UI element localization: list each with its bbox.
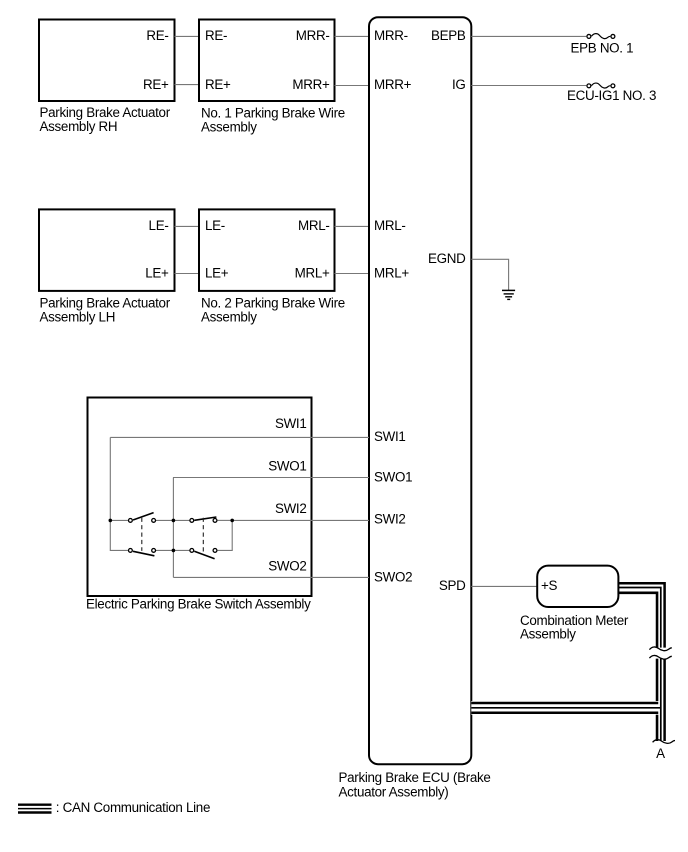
wire MRL- to ECU	[335, 225, 370, 227]
box Parking Brake ECU (Brake Actuator Assembly) U1	[339, 17, 491, 799]
svg-text:LE-: LE-	[205, 218, 225, 233]
svg-text:SWO1: SWO1	[268, 459, 306, 474]
svg-text:Assembly: Assembly	[520, 627, 576, 642]
svg-text:: CAN Communication Line: : CAN Communication Line	[56, 800, 210, 815]
box Parking Brake Actuator Assembly LH	[39, 209, 175, 324]
svg-text:SPD: SPD	[439, 578, 466, 593]
box No. 2 Parking Brake Wire Assembly	[199, 209, 345, 324]
svg-text:Parking Brake Actuator: Parking Brake Actuator	[40, 296, 171, 311]
svg-text:Actuator Assembly): Actuator Assembly)	[339, 784, 449, 799]
wire BEPB from ECU to fuse EPB NO. 1	[471, 35, 586, 37]
svg-text:SWI2: SWI2	[374, 511, 406, 526]
wire LE- between actuator LH and wire assembly no.2	[175, 225, 200, 227]
svg-text:LE-: LE-	[149, 218, 169, 233]
switch SW2 upper contacts	[190, 517, 217, 522]
svg-text:MRL-: MRL-	[298, 218, 330, 233]
wire RE+ between actuator RH and wire assembly no.1	[175, 84, 200, 86]
svg-text:LE+: LE+	[205, 265, 229, 280]
box No. 1 Parking Brake Wire Assembly	[199, 20, 345, 135]
switch SW1 mechanical link (dashed)	[141, 518, 143, 551]
wire EGND	[471, 259, 508, 290]
box Parking Brake Actuator Assembly RH	[39, 20, 175, 134]
fuse ECU-IG1 NO. 3	[567, 83, 656, 103]
svg-text:No. 1 Parking Brake Wire: No. 1 Parking Brake Wire	[201, 106, 345, 121]
wire upper contact row segments	[110, 519, 232, 521]
svg-text:Assembly: Assembly	[201, 310, 257, 325]
CAN bus from ECU: horizontal triple line joining vertical bus	[471, 701, 661, 715]
svg-text:MRR+: MRR+	[292, 77, 330, 92]
svg-text:BEPB: BEPB	[431, 28, 466, 43]
svg-text:SWO1: SWO1	[374, 470, 412, 485]
wire MRR+ to ECU	[335, 85, 370, 87]
switch SW1 upper contacts	[129, 513, 156, 523]
wire SWO1	[173, 477, 369, 479]
wire RE- between actuator RH and wire assembly no.1	[175, 35, 200, 37]
svg-text:MRR+: MRR+	[374, 77, 412, 92]
svg-text:SWO2: SWO2	[268, 559, 306, 574]
svg-text:RE+: RE+	[205, 77, 231, 92]
svg-text:MRL+: MRL+	[374, 265, 409, 280]
svg-text:Assembly LH: Assembly LH	[40, 310, 116, 325]
wire LE+ between actuator LH and wire assembly no.2	[175, 273, 200, 275]
svg-text:LE+: LE+	[145, 265, 169, 280]
ground symbol	[502, 290, 515, 299]
wire IG from ECU to fuse ECU-IG1 NO. 3	[471, 85, 586, 87]
box Combination Meter Assembly	[520, 566, 629, 642]
svg-text:MRR-: MRR-	[374, 28, 408, 43]
legend CAN communication line symbol	[18, 800, 210, 815]
wire left vertical from SWI1 down to lower contact row	[110, 437, 128, 550]
svg-text:IG: IG	[452, 77, 466, 92]
wire SWI2	[232, 519, 369, 521]
svg-text:RE-: RE-	[205, 28, 227, 43]
CAN bus from combination meter: horizontal then down (triple line)	[618, 583, 665, 647]
junction dot right on SWI2 row	[230, 519, 234, 523]
svg-text:SWI1: SWI1	[374, 429, 406, 444]
svg-text:+S: +S	[541, 578, 558, 593]
svg-text:Parking Brake Actuator: Parking Brake Actuator	[40, 105, 171, 120]
junction dot left on SWI2 row	[109, 519, 113, 523]
wire right vertical between contact rows	[218, 520, 233, 550]
wire lower contact row segment	[156, 549, 189, 551]
svg-text:ECU-IG1 NO. 3: ECU-IG1 NO. 3	[567, 88, 656, 103]
svg-text:RE+: RE+	[143, 77, 169, 92]
wire MRL+ to ECU	[335, 273, 370, 275]
CAN bus break symbol (double squiggle)	[649, 647, 671, 659]
svg-text:Assembly: Assembly	[201, 119, 257, 134]
svg-text:Electric Parking Brake Switch: Electric Parking Brake Switch Assembly	[86, 597, 311, 612]
wire MRR- to ECU	[335, 35, 370, 37]
switch SW2 mechanical link (dashed)	[202, 518, 204, 553]
svg-text:EGND: EGND	[428, 251, 466, 266]
svg-text:MRL+: MRL+	[295, 265, 330, 280]
junction dot middle on SWI2 row	[172, 519, 176, 523]
svg-text:MRR-: MRR-	[296, 28, 330, 43]
CAN bus end squiggle at connector A	[653, 740, 675, 744]
svg-text:MRL-: MRL-	[374, 218, 406, 233]
svg-text:SWI1: SWI1	[275, 416, 307, 431]
wire middle vertical from SWO1 down to SWO2	[172, 478, 174, 578]
svg-text:No. 2 Parking Brake Wire: No. 2 Parking Brake Wire	[201, 296, 345, 311]
CAN bus vertical below break down to connector A	[657, 659, 665, 741]
svg-text:SWI2: SWI2	[275, 501, 307, 516]
svg-text:Parking Brake ECU (Brake: Parking Brake ECU (Brake	[339, 770, 491, 785]
svg-text:SWO2: SWO2	[374, 570, 412, 585]
switch SW2 lower contacts	[190, 549, 217, 559]
box Electric Parking Brake Switch Assembly	[86, 398, 312, 612]
switch SW1 lower contacts	[129, 549, 156, 556]
svg-text:A: A	[656, 746, 665, 761]
svg-text:RE-: RE-	[146, 28, 168, 43]
svg-text:Assembly RH: Assembly RH	[40, 119, 118, 134]
junction dot middle on lower contact row	[172, 549, 176, 553]
fuse EPB NO. 1	[571, 34, 634, 56]
svg-text:EPB NO. 1: EPB NO. 1	[571, 41, 634, 56]
wire SWO2	[173, 576, 369, 578]
wire SPD from ECU to combination meter	[471, 585, 537, 587]
wire SWI1	[110, 436, 369, 438]
